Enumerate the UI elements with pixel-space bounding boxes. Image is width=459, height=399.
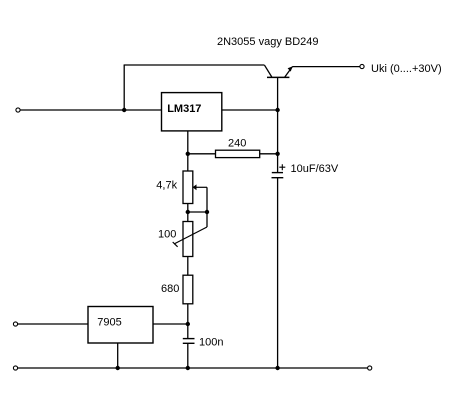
svg-text:100: 100 [158, 228, 176, 240]
terminal bottom left [13, 366, 17, 370]
wire ADJ to R1 [188, 153, 216, 155]
potentiometer P2 100 [158, 222, 193, 257]
terminal 7905 input [13, 322, 17, 326]
svg-text:680: 680 [161, 283, 179, 295]
wire top rail to collector [124, 64, 265, 66]
svg-text:2N3055 vagy BD249: 2N3055 vagy BD249 [217, 36, 319, 48]
node P1/P2 junction [186, 210, 190, 214]
svg-text:4,7k: 4,7k [156, 180, 177, 192]
wire wiper down [206, 187, 208, 227]
wiper arrow P1 [193, 184, 207, 190]
svg-text:Uki (0....+30V): Uki (0....+30V) [371, 63, 442, 75]
node ADJ junction [186, 152, 190, 156]
wire P1 bottom to P2 top [187, 204, 189, 222]
input terminal (top left) [16, 108, 20, 112]
svg-text:100n: 100n [199, 337, 223, 349]
svg-text:10uF/63V: 10uF/63V [291, 163, 339, 175]
node base/output junction [275, 108, 279, 112]
node 7905 output junction [186, 322, 190, 326]
wire LM317 output to base node [222, 109, 278, 111]
wire emitter to output terminal [292, 66, 360, 68]
wire 7905 output [153, 323, 188, 325]
node 100n / bottom rail junction [186, 366, 190, 370]
output terminal Uki [360, 64, 364, 68]
wire R2 bottom to 100n [187, 304, 189, 339]
rheostat arrow P2 [173, 227, 207, 247]
resistor R1 240 [216, 137, 260, 157]
svg-text:LM317: LM317 [167, 103, 201, 115]
wire R1 to right rail [260, 153, 278, 155]
capacitor C2 100n [183, 337, 224, 349]
wire 100n to bottom rail [187, 343, 189, 368]
node 7905 ground junction [116, 366, 120, 370]
node wiper junction [205, 210, 209, 214]
svg-text:240: 240 [228, 137, 246, 149]
node input junction [122, 108, 126, 112]
label 2N3055 vagy BD249 [217, 36, 319, 48]
wire wiper junction to center [188, 211, 207, 213]
wire bottom rail [18, 367, 368, 369]
terminal bottom right [368, 366, 372, 370]
wire right rail base node to capacitor [277, 110, 279, 172]
wire 7905 ground pin [117, 343, 119, 368]
transistor Q1 2N3055/BD249 [265, 65, 293, 110]
svg-text:7905: 7905 [97, 317, 121, 329]
capacitor C1 10uF/63V [272, 163, 339, 178]
wire P2 bottom to R2 top [187, 257, 189, 276]
wire 7905 input [18, 323, 88, 325]
node capacitor / bottom rail junction [275, 366, 279, 370]
resistor R2 680 [161, 275, 193, 304]
wire capacitor down to bottom rail [277, 178, 279, 368]
potentiometer P1 4,7k [156, 171, 193, 204]
wire input to LM317 [20, 109, 161, 111]
regulator U2 7905 [88, 307, 153, 344]
wire junction up [123, 65, 125, 110]
label Uki (0....+30V) [371, 63, 442, 75]
wire LM317 ADJ down [187, 131, 189, 171]
node right rail / R1 junction [275, 152, 279, 156]
regulator U1 LM317 [162, 93, 222, 131]
